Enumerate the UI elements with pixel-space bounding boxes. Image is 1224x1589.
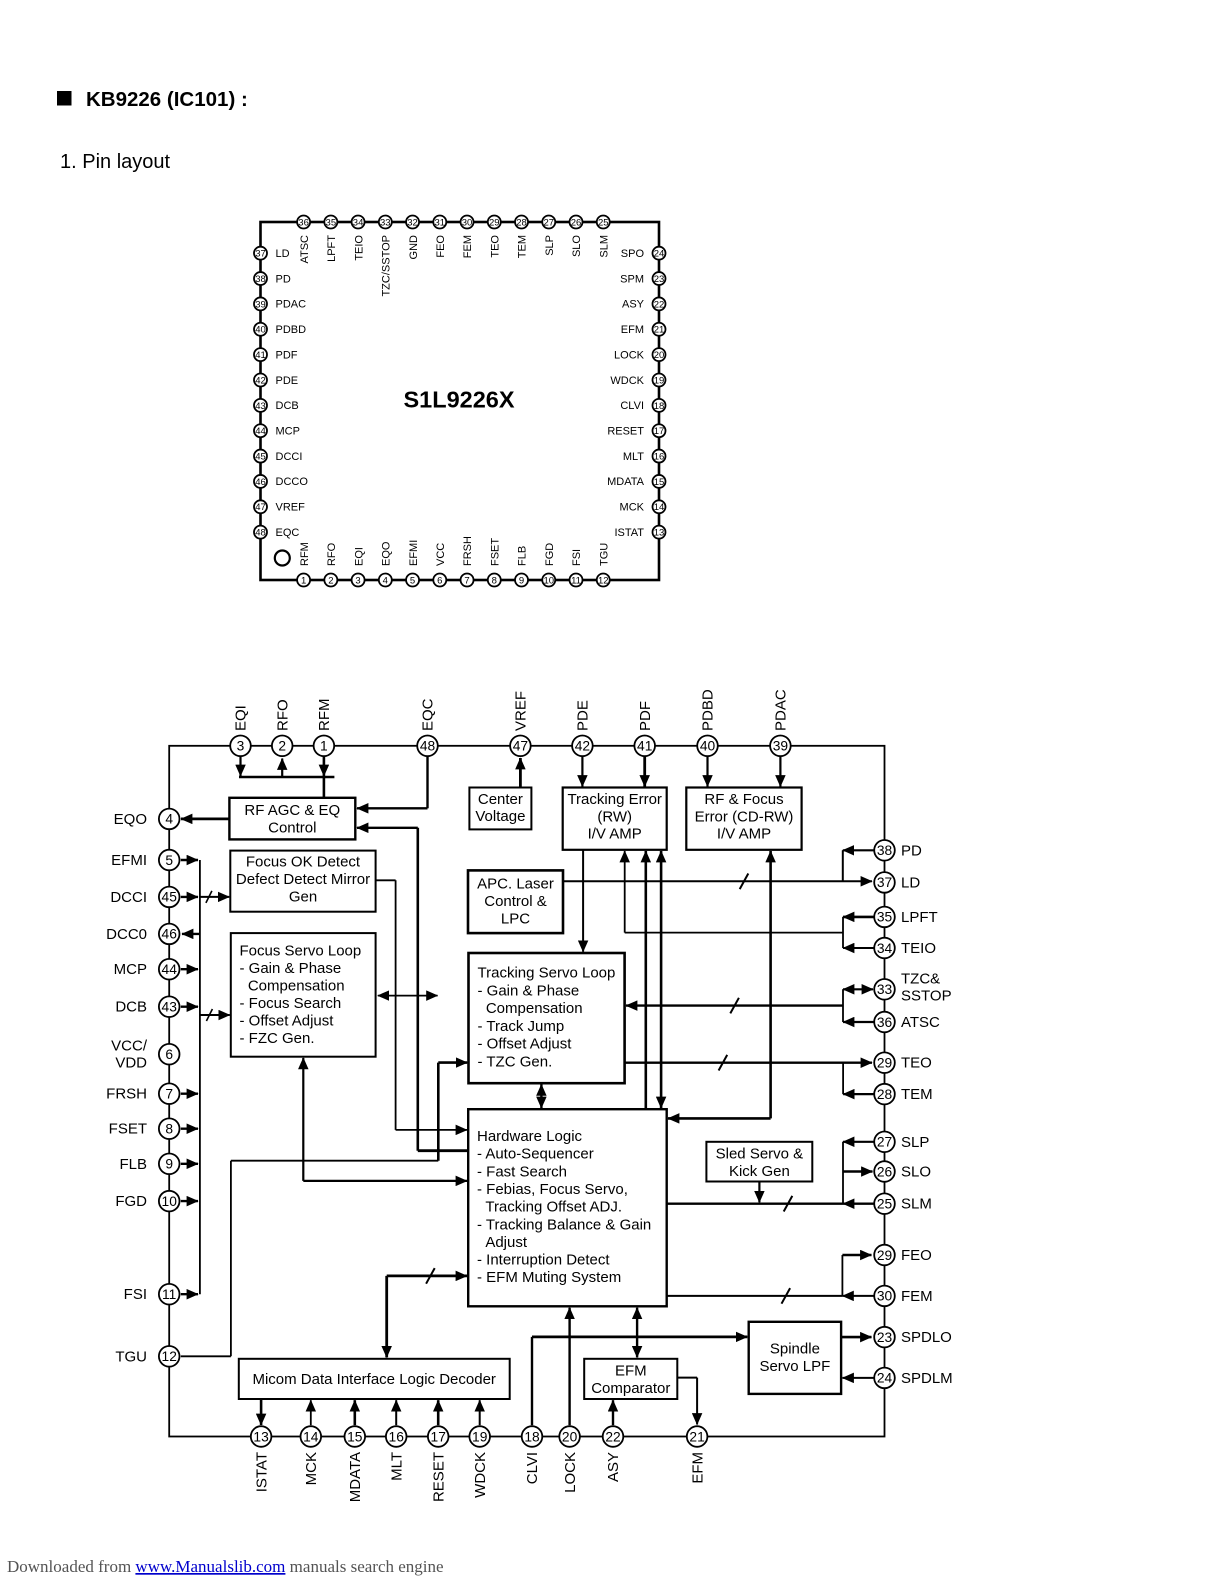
svg-text:20: 20	[654, 350, 665, 361]
svg-text:TGU: TGU	[115, 1348, 147, 1365]
svg-text:30: 30	[877, 1289, 893, 1304]
svg-text:CLVI: CLVI	[620, 400, 644, 412]
svg-text:Compensation: Compensation	[478, 1000, 583, 1017]
svg-text:ISTAT: ISTAT	[614, 527, 644, 539]
svg-text:MCK: MCK	[620, 502, 645, 514]
svg-text:RFM: RFM	[316, 699, 333, 732]
svg-text:6: 6	[165, 1047, 173, 1062]
svg-text:18: 18	[524, 1429, 540, 1444]
svg-text:8: 8	[492, 575, 497, 586]
svg-text:42: 42	[255, 375, 266, 386]
svg-text:TZC&: TZC&	[901, 970, 940, 987]
svg-text:I/V AMP: I/V AMP	[717, 826, 771, 843]
svg-text:FSET: FSET	[489, 538, 501, 566]
svg-text:38: 38	[255, 274, 266, 285]
svg-text:28: 28	[516, 217, 527, 228]
svg-text:RFM: RFM	[299, 542, 311, 566]
svg-text:SLP: SLP	[544, 235, 556, 256]
svg-text:FEM: FEM	[462, 235, 474, 258]
svg-text:SLP: SLP	[901, 1134, 929, 1151]
svg-text:- Interruption Detect: - Interruption Detect	[477, 1252, 610, 1269]
svg-text:FGD: FGD	[544, 543, 556, 566]
svg-text:Tracking Servo Loop: Tracking Servo Loop	[478, 965, 616, 982]
svg-text:ASY: ASY	[605, 1452, 622, 1482]
svg-text:FRSH: FRSH	[106, 1086, 147, 1103]
svg-text:4: 4	[383, 575, 388, 586]
svg-text:ASY: ASY	[622, 299, 645, 311]
svg-text:5: 5	[165, 853, 173, 868]
svg-text:Center: Center	[478, 791, 523, 808]
svg-text:PDBD: PDBD	[276, 324, 307, 336]
svg-text:20: 20	[562, 1429, 578, 1444]
svg-text:28: 28	[877, 1087, 893, 1102]
svg-text:27: 27	[543, 217, 554, 228]
svg-text:- FZC Gen.: - FZC Gen.	[240, 1030, 315, 1047]
svg-text:RESET: RESET	[607, 426, 644, 438]
svg-text:- Auto-Sequencer: - Auto-Sequencer	[477, 1146, 594, 1163]
svg-text:Focus OK Detect: Focus OK Detect	[246, 854, 361, 871]
svg-text:ISTAT: ISTAT	[253, 1452, 270, 1492]
svg-text:TEM: TEM	[517, 235, 529, 258]
svg-text:WDCK: WDCK	[610, 375, 644, 387]
svg-text:TEO: TEO	[901, 1055, 932, 1072]
svg-text:35: 35	[326, 217, 337, 228]
svg-text:PDF: PDF	[637, 701, 654, 731]
svg-text:VCC/: VCC/	[111, 1037, 148, 1054]
svg-text:FSET: FSET	[109, 1121, 147, 1138]
svg-text:26: 26	[877, 1164, 893, 1179]
svg-text:48: 48	[255, 528, 266, 539]
svg-text:12: 12	[598, 575, 609, 586]
svg-text:TEO: TEO	[489, 235, 501, 258]
svg-text:29: 29	[489, 217, 500, 228]
svg-text:LD: LD	[276, 248, 290, 260]
svg-text:9: 9	[519, 575, 524, 586]
svg-text:11: 11	[571, 575, 581, 586]
svg-text:SPO: SPO	[621, 248, 645, 260]
svg-text:34: 34	[877, 941, 893, 956]
svg-text:SLM: SLM	[598, 235, 610, 258]
svg-text:4: 4	[165, 812, 173, 827]
svg-text:Control &: Control &	[484, 893, 547, 910]
svg-text:21: 21	[654, 325, 665, 336]
svg-text:- Offset Adjust: - Offset Adjust	[240, 1013, 335, 1030]
svg-text:RESET: RESET	[430, 1452, 447, 1502]
svg-text:Adjust: Adjust	[477, 1234, 528, 1251]
svg-text:Hardware Logic: Hardware Logic	[477, 1128, 583, 1145]
svg-text:LOCK: LOCK	[614, 349, 645, 361]
svg-text:31: 31	[435, 217, 446, 228]
svg-text:EFM: EFM	[689, 1452, 706, 1484]
svg-text:MCP: MCP	[114, 961, 147, 978]
svg-text:FEO: FEO	[901, 1247, 932, 1264]
svg-text:- Offset Adjust: - Offset Adjust	[478, 1036, 573, 1053]
svg-text:RFO: RFO	[326, 542, 338, 566]
svg-text:1: 1	[301, 575, 306, 586]
svg-text:PDF: PDF	[276, 349, 298, 361]
svg-text:40: 40	[255, 325, 266, 336]
svg-text:29: 29	[877, 1056, 893, 1071]
svg-text:WDCK: WDCK	[472, 1452, 489, 1498]
svg-text:35: 35	[877, 910, 893, 925]
svg-text:PDAC: PDAC	[276, 299, 307, 311]
svg-text:45: 45	[162, 890, 178, 905]
svg-text:LOCK: LOCK	[562, 1452, 579, 1493]
svg-text:7: 7	[464, 575, 469, 586]
svg-text:PDE: PDE	[276, 375, 299, 387]
svg-text:14: 14	[654, 502, 665, 513]
svg-text:17: 17	[654, 426, 665, 437]
svg-text:24: 24	[654, 249, 665, 260]
svg-text:15: 15	[654, 477, 665, 488]
svg-text:7: 7	[165, 1087, 173, 1102]
svg-text:SPDLM: SPDLM	[901, 1370, 953, 1387]
svg-text:16: 16	[654, 451, 665, 462]
svg-text:Kick Gen: Kick Gen	[729, 1163, 790, 1180]
svg-text:43: 43	[255, 401, 266, 412]
svg-text:DCC0: DCC0	[106, 926, 147, 943]
svg-text:- TZC Gen.: - TZC Gen.	[478, 1054, 553, 1071]
svg-text:40: 40	[700, 739, 716, 754]
svg-text:44: 44	[255, 426, 266, 437]
svg-text:19: 19	[654, 375, 665, 386]
svg-text:11: 11	[162, 1287, 176, 1302]
svg-text:RFO: RFO	[274, 699, 291, 731]
svg-text:41: 41	[255, 350, 266, 361]
svg-text:22: 22	[605, 1429, 620, 1444]
svg-text:42: 42	[575, 739, 590, 754]
svg-text:SLO: SLO	[571, 235, 583, 257]
svg-text:(RW): (RW)	[597, 809, 632, 826]
svg-text:33: 33	[877, 982, 893, 997]
svg-text:16: 16	[389, 1429, 405, 1444]
svg-text:PDBD: PDBD	[700, 689, 717, 731]
svg-text:Sled Servo &: Sled Servo &	[716, 1146, 804, 1163]
svg-text:CLVI: CLVI	[524, 1452, 541, 1484]
svg-text:45: 45	[255, 451, 266, 462]
svg-text:FEM: FEM	[901, 1288, 933, 1305]
svg-text:Comparator: Comparator	[591, 1380, 670, 1397]
svg-text:Compensation: Compensation	[240, 978, 345, 995]
svg-text:EFM: EFM	[615, 1363, 647, 1380]
svg-text:MCK: MCK	[303, 1452, 320, 1485]
svg-text:MCP: MCP	[276, 426, 300, 438]
svg-text:SLO: SLO	[901, 1164, 931, 1181]
svg-text:38: 38	[877, 843, 893, 858]
svg-text:DCCI: DCCI	[110, 889, 147, 906]
svg-text:GND: GND	[408, 235, 420, 260]
svg-text:2: 2	[328, 575, 333, 586]
svg-text:- EFM Muting System: - EFM Muting System	[477, 1269, 621, 1286]
svg-text:9: 9	[165, 1157, 173, 1172]
svg-text:1. Pin layout: 1. Pin layout	[60, 151, 171, 173]
svg-text:- Gain & Phase: - Gain & Phase	[478, 982, 580, 999]
svg-text:TEIO: TEIO	[353, 235, 365, 261]
svg-text:PDE: PDE	[575, 700, 592, 731]
svg-text:48: 48	[420, 739, 436, 754]
svg-text:ATSC: ATSC	[299, 235, 311, 264]
svg-text:MLT: MLT	[388, 1452, 405, 1481]
svg-text:23: 23	[877, 1330, 893, 1345]
svg-text:PD: PD	[901, 842, 922, 859]
svg-text:44: 44	[162, 962, 178, 977]
svg-text:LPFT: LPFT	[326, 235, 338, 262]
svg-text:36: 36	[877, 1015, 893, 1030]
svg-text:EFMI: EFMI	[111, 852, 147, 869]
svg-text:3: 3	[355, 575, 360, 586]
svg-text:FLB: FLB	[119, 1156, 147, 1173]
svg-text:APC. Laser: APC. Laser	[477, 876, 554, 893]
svg-text:Defect Detect Mirror: Defect Detect Mirror	[236, 871, 370, 888]
svg-text:VDD: VDD	[115, 1054, 147, 1071]
svg-text:33: 33	[380, 217, 391, 228]
svg-text:LPFT: LPFT	[901, 909, 938, 926]
svg-text:10: 10	[162, 1194, 178, 1209]
svg-text:Voltage: Voltage	[475, 808, 525, 825]
svg-text:15: 15	[347, 1429, 363, 1444]
svg-text:TEM: TEM	[901, 1086, 933, 1103]
svg-text:2: 2	[278, 739, 286, 754]
svg-text:- Febias, Focus Servo,: - Febias, Focus Servo,	[477, 1181, 628, 1198]
svg-text:36: 36	[298, 217, 309, 228]
svg-text:FGD: FGD	[115, 1193, 147, 1210]
svg-text:EFMI: EFMI	[408, 540, 420, 566]
svg-text:PDAC: PDAC	[773, 689, 790, 731]
svg-text:17: 17	[431, 1429, 446, 1444]
svg-text:Tracking Error: Tracking Error	[567, 791, 661, 808]
svg-text:- Tracking Balance & Gain: - Tracking Balance & Gain	[477, 1216, 651, 1233]
svg-text:43: 43	[162, 1000, 178, 1015]
svg-text:SSTOP: SSTOP	[901, 987, 952, 1004]
svg-text:32: 32	[407, 217, 418, 228]
svg-text:DCCO: DCCO	[276, 476, 309, 488]
svg-text:FLB: FLB	[517, 546, 529, 566]
svg-text:12: 12	[162, 1349, 177, 1364]
svg-text:26: 26	[571, 217, 582, 228]
svg-text:SPDLO: SPDLO	[901, 1329, 952, 1346]
svg-text:19: 19	[472, 1429, 488, 1444]
svg-text:Error (CD-RW): Error (CD-RW)	[695, 809, 794, 826]
svg-text:KB9226 (IC101) :: KB9226 (IC101) :	[86, 88, 248, 111]
svg-text:VCC: VCC	[435, 543, 447, 566]
svg-text:39: 39	[255, 299, 266, 310]
svg-text:10: 10	[543, 575, 554, 586]
svg-text:EQC: EQC	[276, 527, 300, 539]
svg-text:- Track Jump: - Track Jump	[478, 1018, 565, 1035]
svg-text:47: 47	[513, 739, 528, 754]
svg-text:MLT: MLT	[623, 451, 644, 463]
svg-text:21: 21	[689, 1429, 704, 1444]
svg-text:27: 27	[877, 1135, 892, 1150]
svg-text:34: 34	[353, 217, 364, 228]
svg-text:5: 5	[410, 575, 415, 586]
svg-text:SPM: SPM	[620, 273, 644, 285]
svg-text:8: 8	[165, 1122, 173, 1137]
svg-text:FEO: FEO	[435, 235, 447, 258]
svg-text:Gen: Gen	[289, 889, 317, 906]
svg-text:Focus Servo Loop: Focus Servo Loop	[240, 943, 362, 960]
svg-text:LPC: LPC	[501, 911, 530, 928]
svg-text:EQC: EQC	[420, 698, 437, 731]
svg-text:DCCI: DCCI	[276, 451, 303, 463]
svg-text:25: 25	[877, 1197, 893, 1212]
svg-text:1: 1	[320, 739, 328, 754]
svg-text:Spindle: Spindle	[770, 1341, 820, 1358]
svg-text:FSI: FSI	[124, 1286, 147, 1303]
svg-text:EQI: EQI	[233, 705, 250, 731]
svg-text:29: 29	[877, 1248, 893, 1263]
svg-text:39: 39	[773, 739, 789, 754]
svg-text:PD: PD	[276, 273, 291, 285]
svg-text:TEIO: TEIO	[901, 940, 936, 957]
svg-text:TGU: TGU	[598, 543, 610, 566]
svg-text:Tracking Offset ADJ.: Tracking Offset ADJ.	[477, 1199, 622, 1216]
svg-text:VREF: VREF	[513, 691, 530, 731]
svg-text:MDATA: MDATA	[347, 1452, 364, 1502]
svg-text:RF AGC & EQ: RF AGC & EQ	[244, 802, 340, 819]
svg-text:VREF: VREF	[276, 502, 306, 514]
svg-text:S1L9226X: S1L9226X	[403, 387, 514, 413]
svg-text:TZC/SSTOP: TZC/SSTOP	[381, 235, 393, 297]
svg-text:24: 24	[877, 1371, 893, 1386]
svg-text:13: 13	[253, 1429, 269, 1444]
svg-text:46: 46	[255, 477, 266, 488]
svg-text:13: 13	[654, 528, 665, 539]
svg-text:37: 37	[255, 249, 266, 260]
svg-text:3: 3	[237, 739, 245, 754]
svg-text:Servo LPF: Servo LPF	[759, 1358, 830, 1375]
svg-text:EQI: EQI	[353, 547, 365, 566]
svg-text:22: 22	[654, 299, 665, 310]
svg-text:DCB: DCB	[115, 999, 147, 1016]
svg-text:MDATA: MDATA	[607, 476, 645, 488]
svg-text:Downloaded from www.Manualslib: Downloaded from www.Manualslib.com manua…	[7, 1557, 444, 1576]
svg-text:46: 46	[162, 927, 178, 942]
svg-text:DCB: DCB	[276, 400, 299, 412]
svg-text:Micom Data Interface Logic Dec: Micom Data Interface Logic Decoder	[252, 1371, 495, 1388]
svg-text:6: 6	[437, 575, 442, 586]
svg-text:- Focus Search: - Focus Search	[240, 995, 342, 1012]
svg-text:FSI: FSI	[571, 549, 583, 566]
svg-text:EQO: EQO	[114, 811, 147, 828]
svg-text:25: 25	[598, 217, 609, 228]
svg-text:LD: LD	[901, 874, 920, 891]
svg-text:23: 23	[654, 274, 665, 285]
svg-text:37: 37	[877, 875, 892, 890]
svg-text:EFM: EFM	[621, 324, 644, 336]
svg-text:EQO: EQO	[381, 541, 393, 566]
svg-text:30: 30	[462, 217, 473, 228]
svg-text:41: 41	[637, 739, 652, 754]
svg-text:47: 47	[255, 502, 266, 513]
svg-text:SLM: SLM	[901, 1196, 932, 1213]
svg-text:Control: Control	[268, 820, 316, 837]
svg-text:18: 18	[654, 401, 665, 412]
svg-text:I/V AMP: I/V AMP	[588, 826, 642, 843]
svg-text:14: 14	[303, 1429, 319, 1444]
svg-text:RF & Focus: RF & Focus	[704, 791, 783, 808]
svg-text:ATSC: ATSC	[901, 1014, 940, 1031]
svg-text:FRSH: FRSH	[462, 536, 474, 566]
svg-text:- Gain & Phase: - Gain & Phase	[240, 960, 342, 977]
svg-text:- Fast Search: - Fast Search	[477, 1163, 567, 1180]
